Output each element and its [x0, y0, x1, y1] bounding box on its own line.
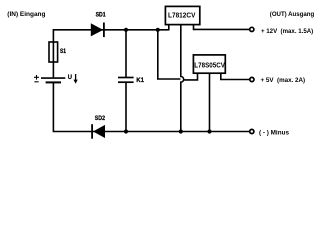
- wire: U2 pin2 ground lead down to bottom rail: [209, 73, 211, 131]
- voltage regulator U1 L7812CV: [165, 6, 199, 24]
- junction: bottom rail / U2 ground: [207, 129, 211, 133]
- svg-text:L7812CV: L7812CV: [168, 11, 195, 20]
- wire: U2 pin3 output to +5V terminal: [221, 73, 250, 79]
- terminal: +12V output: [250, 27, 254, 31]
- svg-text:+ 12V (max. 1.5A): + 12V (max. 1.5A): [261, 28, 313, 35]
- terminal: (-) minus: [250, 129, 254, 133]
- wire: feed from top rail down to U2 input level (left of hop): [158, 30, 181, 79]
- svg-text:SD2: SD2: [95, 115, 106, 122]
- junction: top rail / U2 input feed: [156, 28, 160, 32]
- wire: top rail from left corner through S1/SD1 to U1 pin1, with left vertical down to battery +: [53, 30, 168, 78]
- junction: bottom rail / U1 ground: [179, 129, 183, 133]
- svg-text:+ 5V (max. 2A): + 5V (max. 2A): [261, 77, 306, 84]
- battery cell U: long thin plate (+) and short thick plate (-): [41, 78, 65, 82]
- diode SD2: [91, 124, 105, 139]
- wire: K1 branch lower vertical: [125, 82, 127, 131]
- capacitor K1: [118, 78, 134, 83]
- wire: feed continues from hop bulge to U2 pin1: [184, 73, 198, 80]
- wire: U1 pin1 input lead: [168, 25, 170, 31]
- wire: U1 pin2 ground lead down to bottom rail, hopping over U2 input wire: [181, 25, 184, 132]
- junction: top rail / K1: [124, 28, 128, 32]
- svg-text:(OUT) Ausgang: (OUT) Ausgang: [270, 11, 314, 18]
- voltage regulator U2 L78S05CV: [193, 55, 225, 73]
- svg-text:( - ) Minus: ( - ) Minus: [259, 129, 289, 136]
- svg-text:U: U: [68, 74, 73, 81]
- fuse S1: [49, 42, 58, 62]
- svg-text:L78S05CV: L78S05CV: [194, 60, 225, 69]
- svg-text:SD1: SD1: [96, 12, 106, 19]
- svg-text:K1: K1: [136, 77, 144, 84]
- wire: K1 branch upper vertical: [125, 30, 127, 78]
- label ± polarity mark: [34, 75, 39, 82]
- svg-text:(IN) Eingang: (IN) Eingang: [7, 11, 45, 18]
- terminal: +5V output: [250, 77, 254, 81]
- label: down arrow for U: [74, 74, 78, 84]
- junction: bottom rail / K1: [124, 129, 128, 133]
- svg-text:S1: S1: [60, 48, 66, 55]
- wire: U1 pin3 output to +12V terminal: [194, 25, 250, 30]
- wire: battery - down to bottom-left corner and bottom rail to (-) terminal: [53, 82, 249, 131]
- diode SD1: [91, 23, 105, 38]
